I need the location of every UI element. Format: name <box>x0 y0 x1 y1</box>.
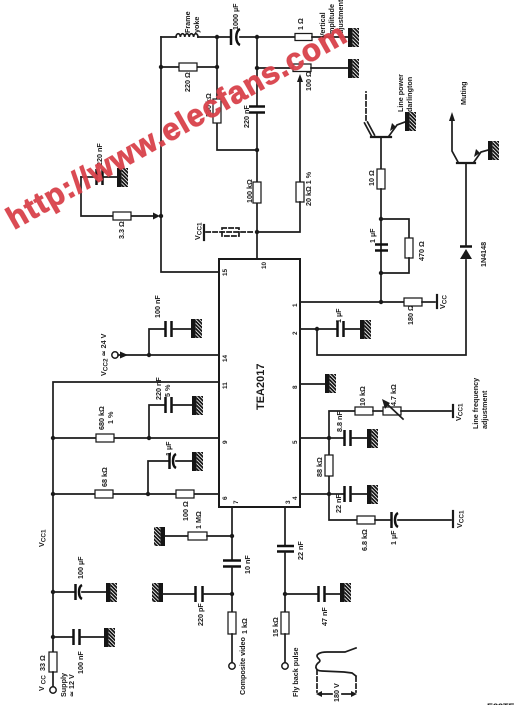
svg-text:1 µF: 1 µF <box>368 228 377 243</box>
svg-text:100 nF: 100 nF <box>153 295 162 318</box>
svg-text:5 %: 5 % <box>163 384 172 397</box>
svg-text:Muting: Muting <box>459 81 468 105</box>
svg-text:7: 7 <box>233 500 240 504</box>
svg-text:20 kΩ 1 %: 20 kΩ 1 % <box>304 171 313 206</box>
svg-text:1 µF: 1 µF <box>389 530 398 545</box>
svg-text:1 MΩ: 1 MΩ <box>194 511 203 529</box>
svg-text:33 Ω: 33 Ω <box>38 655 47 671</box>
svg-text:Composite video: Composite video <box>238 636 247 695</box>
svg-text:1 kΩ: 1 kΩ <box>240 618 249 634</box>
svg-text:Frame: Frame <box>183 11 192 33</box>
svg-text:88 kΩ: 88 kΩ <box>315 457 324 477</box>
svg-text:3.3 Ω: 3.3 Ω <box>117 221 126 239</box>
svg-text:1 Ω: 1 Ω <box>296 18 305 30</box>
svg-text:47 nF: 47 nF <box>320 607 329 626</box>
svg-text:6.8 kΩ: 6.8 kΩ <box>360 529 369 551</box>
svg-text:darlington: darlington <box>405 77 414 112</box>
svg-text:68 kΩ: 68 kΩ <box>100 467 109 487</box>
svg-text:2: 2 <box>292 331 299 335</box>
svg-text:10: 10 <box>261 261 268 269</box>
svg-text:100 kΩ: 100 kΩ <box>245 179 254 203</box>
svg-text:10 Ω: 10 Ω <box>367 170 376 186</box>
svg-text:14: 14 <box>222 354 229 362</box>
svg-text:6: 6 <box>222 496 229 500</box>
svg-text:8.8 nF: 8.8 nF <box>335 411 344 432</box>
svg-text:220 nF: 220 nF <box>154 377 163 400</box>
svg-text:4.7 kΩ: 4.7 kΩ <box>389 384 398 406</box>
svg-text:Line frequency: Line frequency <box>471 378 480 429</box>
svg-text:≃ 12 V: ≃ 12 V <box>67 674 76 697</box>
svg-text:15: 15 <box>222 268 229 276</box>
svg-text:1 µF: 1 µF <box>164 441 173 456</box>
svg-text:1: 1 <box>292 303 299 307</box>
svg-text:5: 5 <box>292 440 299 444</box>
svg-text:1 µF: 1 µF <box>334 308 343 323</box>
svg-text:yoke: yoke <box>192 17 201 33</box>
svg-text:8: 8 <box>292 385 299 389</box>
svg-text:15 kΩ: 15 kΩ <box>271 617 280 637</box>
svg-text:Fly back pulse: Fly back pulse <box>291 647 300 697</box>
svg-text:100 µF: 100 µF <box>76 556 85 579</box>
svg-text:adjustment: adjustment <box>480 390 489 429</box>
svg-text:1 %: 1 % <box>106 411 115 424</box>
svg-text:1N4148: 1N4148 <box>479 242 488 267</box>
svg-text:220 Ω: 220 Ω <box>183 72 192 92</box>
svg-text:180 V: 180 V <box>332 683 341 702</box>
svg-text:180 Ω: 180 Ω <box>406 305 415 325</box>
svg-text:9: 9 <box>222 440 229 444</box>
svg-text:TEA2017: TEA2017 <box>255 364 267 410</box>
svg-text:470 Ω: 470 Ω <box>417 241 426 261</box>
svg-text:22 nF: 22 nF <box>296 541 305 560</box>
svg-text:10 nF: 10 nF <box>243 555 252 574</box>
svg-text:100 Ω: 100 Ω <box>304 71 313 91</box>
svg-text:4: 4 <box>292 496 299 500</box>
svg-text:100 Ω: 100 Ω <box>181 501 190 521</box>
svg-text:680 kΩ: 680 kΩ <box>97 406 106 430</box>
svg-text:100 nF: 100 nF <box>76 651 85 674</box>
svg-text:11: 11 <box>222 382 229 389</box>
svg-text:1000 µF: 1000 µF <box>231 3 240 30</box>
svg-text:22 nF: 22 nF <box>334 494 343 513</box>
svg-text:3: 3 <box>285 500 292 504</box>
svg-text:Line power: Line power <box>396 74 405 112</box>
svg-text:10 kΩ: 10 kΩ <box>358 386 367 406</box>
svg-text:220 pF: 220 pF <box>196 603 205 626</box>
